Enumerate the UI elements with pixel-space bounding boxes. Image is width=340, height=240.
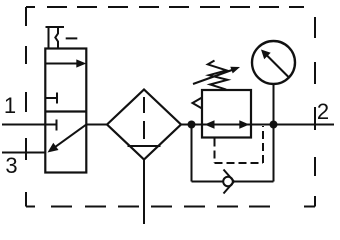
valve blocked port 1 (bottom square): [56, 120, 58, 131]
regulator R1 body: [202, 90, 251, 138]
valve exhaust path 2 to 3: [48, 125, 87, 153]
valve blocked port (top square): [45, 93, 57, 104]
svg-text:3: 3: [5, 153, 17, 178]
on/off valve V1 body: [45, 49, 86, 173]
port 3 line: [2, 152, 45, 154]
pressure gauge G1: [252, 41, 295, 84]
filter F1 body: [107, 90, 181, 160]
port 1 line: [2, 124, 57, 126]
gauge needle: [261, 50, 289, 78]
regulator spring: [208, 61, 228, 90]
valve manual detent actuator: [46, 27, 78, 49]
enclosure border right: [304, 17, 315, 207]
regulator flow arrow (double headed): [205, 120, 250, 129]
valve flow arrow (open position): [45, 59, 86, 67]
junction node B: [270, 121, 278, 129]
filter element (dashed centre line): [143, 97, 145, 139]
check valve: [223, 170, 234, 194]
bypass line with check valve: [192, 125, 274, 182]
filter water separator: [128, 145, 161, 147]
enclosure border left: [26, 7, 35, 207]
junction node A: [188, 121, 196, 129]
regulator adjustment arrow: [193, 67, 240, 84]
enclosure border top: [26, 6, 304, 8]
wire: filter to regulator and port 2: [181, 124, 334, 126]
svg-text:2: 2: [317, 99, 329, 124]
filter drain line: [143, 160, 145, 225]
wire: valve outlet to filter: [86, 124, 107, 126]
regulator pilot line (dashed): [215, 126, 264, 163]
gauge stem: [273, 84, 275, 125]
regulator relief vent: [193, 98, 203, 109]
svg-text:1: 1: [4, 93, 16, 118]
enclosure border bottom: [51, 206, 270, 208]
